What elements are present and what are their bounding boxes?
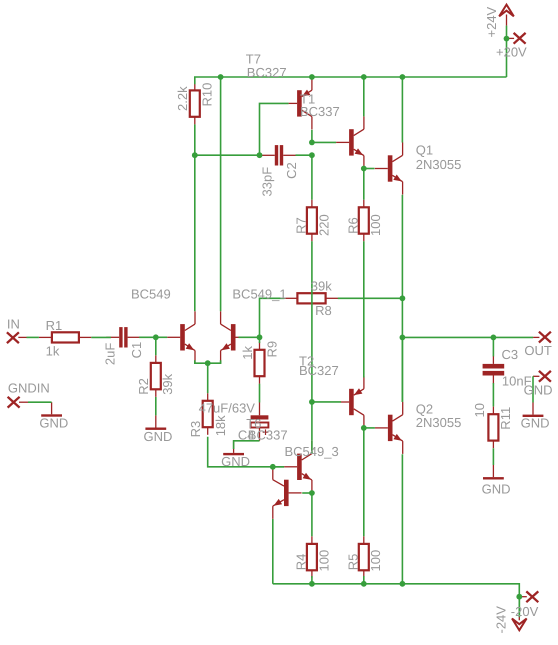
wire Q2 collector drop xyxy=(401,337,403,402)
pin GND pad xyxy=(539,371,551,382)
svg-text:C3: C3 xyxy=(502,347,519,362)
supply +24V arrow xyxy=(499,5,514,26)
wire T7 base riser xyxy=(260,103,289,155)
wire R9 bottom to C4 xyxy=(259,384,261,403)
wire +24V stem xyxy=(506,26,508,77)
label GND under R2 xyxy=(144,429,173,444)
wire C2 right to R7 column xyxy=(296,154,312,156)
label Q1 name xyxy=(416,143,433,158)
transistor T1 BC337 xyxy=(336,116,364,168)
wire BC549_3 emitter to T6 base node xyxy=(302,492,312,494)
junction top rail / T1 xyxy=(361,74,367,80)
label T2 name xyxy=(299,353,314,368)
wire output to OUT pad xyxy=(402,336,533,338)
junction R8 / output column xyxy=(400,295,406,301)
svg-text:GNDIN: GNDIN xyxy=(8,381,50,396)
junction bottom rail / R5 xyxy=(361,581,367,587)
label R5 value 100 xyxy=(368,550,383,572)
junction T1 emitter / Q1 base xyxy=(361,166,367,172)
svg-text:R3: R3 xyxy=(188,421,203,438)
svg-text:39k: 39k xyxy=(160,373,175,394)
capacitor C4 pins xyxy=(259,403,261,441)
resistor R1 xyxy=(39,332,91,342)
label T2 value BC327 xyxy=(299,363,339,378)
wire pin GND pad link xyxy=(533,375,539,377)
label T7 value BC327 xyxy=(247,65,287,80)
wire pin -20V link xyxy=(522,596,527,598)
wire R6 bottom to T2 emitter xyxy=(363,241,365,377)
label T7 name xyxy=(246,52,261,67)
wire pin +20V link xyxy=(507,37,515,39)
transistor BC549_1 right xyxy=(221,311,249,363)
label GND under pad xyxy=(521,415,550,430)
label T1 value BC337 xyxy=(300,104,340,119)
svg-text:BC549_3: BC549_3 xyxy=(285,444,339,459)
label 10 R11 value xyxy=(472,403,487,417)
wire C1 to base node xyxy=(139,336,156,338)
svg-text:100: 100 xyxy=(316,550,331,572)
wire tail node to R3 xyxy=(207,363,209,393)
svg-text:C2: C2 xyxy=(284,162,299,179)
label R7 value 220 xyxy=(316,214,331,236)
label C4 name xyxy=(238,427,255,442)
label R10 name xyxy=(200,83,215,107)
label GND under R11 xyxy=(482,482,511,497)
label R6 name xyxy=(345,217,360,234)
pin IN pad xyxy=(7,332,19,343)
wire base node to BC549 xyxy=(156,336,167,338)
label R3 name xyxy=(188,421,203,438)
wire C3 to R11 xyxy=(492,383,494,407)
wire T6 emitter drop xyxy=(272,519,274,584)
label GND under C4 xyxy=(221,454,250,469)
wire R7 bottom long drop xyxy=(311,241,313,441)
wire pin IN link xyxy=(18,336,26,338)
wire BC549_3 collector riser xyxy=(311,441,313,454)
wire C1 node to R2 xyxy=(155,337,157,355)
wire GND pad drop xyxy=(532,376,534,402)
label R8 name xyxy=(315,303,332,318)
label BC549_3 xyxy=(285,444,339,459)
junction T2 collector / Q2 base xyxy=(361,425,367,431)
svg-text:R6: R6 xyxy=(345,217,360,234)
svg-text:33pF: 33pF xyxy=(259,167,274,197)
junction top rail / Q1 xyxy=(400,74,406,80)
label R11 name xyxy=(498,407,513,430)
svg-text:BC337: BC337 xyxy=(248,427,288,442)
transistor BC549_3 xyxy=(284,441,312,493)
wire C3 tap xyxy=(492,337,494,356)
junction T1 base xyxy=(309,140,315,146)
label R4 name xyxy=(293,554,308,571)
wire Q1 collector rail drop xyxy=(401,77,403,143)
junction BC549_1 base / R9 / R8 xyxy=(257,334,263,340)
wire BC549_1 collector rail drop xyxy=(220,77,222,311)
wire node to R7 top xyxy=(311,155,313,200)
label Q2 value 2N3055 xyxy=(416,415,462,430)
ground at GND pad xyxy=(523,403,544,418)
label R1 name xyxy=(46,318,63,333)
wire BC549 collector riser xyxy=(194,155,196,311)
label Q2 name xyxy=(416,402,433,417)
svg-text:39k: 39k xyxy=(311,279,332,294)
junction bottom rail / R4 xyxy=(309,581,315,587)
junction R3 / BC549_3 base / T6 collector xyxy=(270,464,276,470)
wire R10 bottom to node xyxy=(194,124,196,155)
resistor R11 xyxy=(488,407,498,449)
svg-text:1k: 1k xyxy=(240,345,255,359)
capacitor C4 electrolytic xyxy=(251,415,269,435)
svg-text:GND: GND xyxy=(221,454,250,469)
label T1 name xyxy=(300,92,315,107)
label R5 name xyxy=(345,554,360,571)
wire R11 to GND xyxy=(492,448,494,465)
svg-text:220: 220 xyxy=(316,214,331,236)
label -24V xyxy=(494,606,509,634)
wire T2 collector to Q2 base node xyxy=(364,427,375,429)
junction bottom rail / Q2 xyxy=(400,581,406,587)
label BC549 xyxy=(131,286,171,301)
capacitor C3 xyxy=(483,356,505,384)
label +24V xyxy=(484,6,499,37)
wire T2 base link xyxy=(312,401,341,403)
junction R7 / T2 base xyxy=(309,399,315,405)
label R6 value 100 xyxy=(368,214,383,236)
wire T1 collector rail drop xyxy=(363,77,365,116)
ground below C4 xyxy=(223,441,244,456)
label R4 value 100 xyxy=(316,550,331,572)
label GND pad net xyxy=(524,383,553,398)
label GNDIN xyxy=(8,381,50,396)
label BC549_1 xyxy=(232,286,286,301)
svg-text:2uF: 2uF xyxy=(102,343,117,365)
resistor R3 xyxy=(203,393,213,435)
pin -20V pad xyxy=(526,591,538,602)
label C2 name xyxy=(284,162,299,179)
wire Q2 emitter drop xyxy=(401,454,403,584)
svg-text:BC549_1: BC549_1 xyxy=(232,286,286,301)
svg-text:2N3055: 2N3055 xyxy=(416,415,462,430)
wire T6 collector stub xyxy=(273,466,284,468)
junction C1 / R2 / base xyxy=(153,334,159,340)
label R2 value 39k xyxy=(160,373,175,394)
wire R2 to GND xyxy=(155,397,157,415)
resistor R2 xyxy=(151,355,161,397)
resistor R10 xyxy=(190,83,200,125)
svg-text:C1: C1 xyxy=(129,342,144,359)
resistor R7 xyxy=(307,200,317,242)
junction C2 left / T7 base xyxy=(257,152,263,158)
junction C2 right / R7 xyxy=(309,152,315,158)
wire R8 right to output column xyxy=(338,297,403,299)
svg-text:GND: GND xyxy=(521,415,550,430)
wire pin OUT link xyxy=(533,336,539,338)
svg-text:+20V: +20V xyxy=(496,44,527,59)
svg-text:-24V: -24V xyxy=(494,606,509,634)
wire T1 emitter node to R6 top xyxy=(363,169,365,200)
wire R4 bottom xyxy=(311,576,313,584)
transistor T7 BC327 xyxy=(289,77,312,129)
svg-text:47uF/63V: 47uF/63V xyxy=(199,400,256,415)
wire R8 left riser xyxy=(260,298,285,337)
svg-text:BC327: BC327 xyxy=(299,363,339,378)
svg-text:R8: R8 xyxy=(315,303,332,318)
resistor R5 xyxy=(359,536,369,578)
svg-text:R10: R10 xyxy=(200,83,215,107)
label R10 value 2.2k xyxy=(175,86,190,111)
svg-text:GND: GND xyxy=(524,383,553,398)
wire IN to R1 xyxy=(27,336,39,338)
label OUT xyxy=(524,343,552,358)
wire Q2 base node to R5 xyxy=(363,428,365,536)
label T6 value BC337 xyxy=(248,427,288,442)
capacitor C1 xyxy=(106,327,140,347)
label R3 value 18k xyxy=(213,415,228,436)
svg-text:R4: R4 xyxy=(293,554,308,571)
junction +24V / +20V xyxy=(504,36,510,42)
transistor Q1 2N3055 xyxy=(375,143,403,195)
pin OUT pad xyxy=(539,332,551,343)
resistor R6 xyxy=(359,200,369,242)
svg-text:18k: 18k xyxy=(213,415,228,436)
label Q1 value 2N3055 xyxy=(416,157,462,172)
wire R3 bottom to BC549_3 base xyxy=(208,437,284,467)
wire -24V stem xyxy=(518,597,520,617)
svg-text:IN: IN xyxy=(7,317,20,332)
svg-text:BC337: BC337 xyxy=(300,104,340,119)
junction BC549_3 emitter / T6 base / R4 xyxy=(309,490,315,496)
wire emitters join xyxy=(195,360,221,363)
ground GNDIN symbol xyxy=(41,402,62,416)
svg-text:100: 100 xyxy=(368,550,383,572)
label GND under GNDIN xyxy=(39,415,68,430)
wire R1 to C1 xyxy=(91,336,111,338)
label +20V xyxy=(496,44,527,59)
wire BC549_1 base to node xyxy=(239,336,260,338)
pin GNDIN pad xyxy=(8,397,20,408)
svg-text:R7: R7 xyxy=(293,217,308,234)
transistor T2 BC327 xyxy=(341,376,364,428)
supply -24V arrow xyxy=(512,617,527,630)
junction OUT / C3 xyxy=(491,335,497,341)
svg-text:OUT: OUT xyxy=(524,343,552,358)
label IN xyxy=(7,317,20,332)
label R9 name xyxy=(264,341,279,358)
transistor Q2 2N3055 xyxy=(375,402,403,454)
wire node row to C2 left xyxy=(195,154,260,156)
wire Q1 emitter to output column xyxy=(401,195,403,402)
resistor R8 xyxy=(284,293,338,303)
wire bottom rail V- xyxy=(273,584,520,617)
wire node to R4 top xyxy=(311,493,313,536)
label R8 value 39k xyxy=(311,279,332,294)
wire C4 to GND corner xyxy=(234,441,260,449)
svg-text:Q1: Q1 xyxy=(416,143,433,158)
transistor T6 BC337 xyxy=(273,467,302,519)
wire T1 base node to pin xyxy=(312,141,336,143)
capacitor C2 xyxy=(262,145,296,165)
svg-text:100: 100 xyxy=(368,214,383,236)
pin +20V pad xyxy=(514,33,526,44)
label R7 name xyxy=(293,217,308,234)
label C1 value 2uF xyxy=(102,343,117,365)
wire T7 collector to T1 base node xyxy=(311,130,313,143)
resistor R9 xyxy=(255,342,265,384)
label C2 value 33pF xyxy=(259,167,274,197)
label T6 name xyxy=(246,416,261,431)
label C1 name xyxy=(129,342,144,359)
svg-text:R1: R1 xyxy=(46,318,63,333)
svg-text:GND: GND xyxy=(39,415,68,430)
label R2 name xyxy=(136,378,151,395)
svg-text:GND: GND xyxy=(482,482,511,497)
wire pin GNDIN link xyxy=(19,401,28,403)
wire top rail V+ xyxy=(195,77,507,84)
resistor R4 xyxy=(307,536,317,578)
label R1 value 1k xyxy=(46,343,60,358)
label C4 value 47uF/63V xyxy=(199,400,256,415)
svg-text:R11: R11 xyxy=(498,407,513,430)
svg-text:GND: GND xyxy=(144,429,173,444)
ground below R11 xyxy=(483,465,504,480)
svg-text:BC549: BC549 xyxy=(131,286,171,301)
label R9 value 1k xyxy=(240,345,255,359)
svg-text:10: 10 xyxy=(472,403,487,417)
svg-text:2.2k: 2.2k xyxy=(175,86,190,111)
junction top rail / BC549_1 xyxy=(218,74,224,80)
svg-text:R9: R9 xyxy=(264,341,279,358)
svg-text:BC327: BC327 xyxy=(247,65,287,80)
wire GNDIN run xyxy=(28,401,52,403)
svg-text:R5: R5 xyxy=(345,554,360,571)
svg-text:1k: 1k xyxy=(46,343,60,358)
junction -24V / -20V xyxy=(516,594,522,600)
wire R5 bottom xyxy=(363,576,365,584)
wire T1 emitter to Q1 base xyxy=(364,168,375,170)
label C3 name xyxy=(502,347,519,362)
label C3 value 10nF xyxy=(502,373,532,388)
transistor BC549 left xyxy=(167,311,195,363)
svg-text:+24V: +24V xyxy=(484,6,499,37)
label -20V xyxy=(511,604,539,619)
svg-text:R2: R2 xyxy=(136,378,151,395)
svg-text:-20V: -20V xyxy=(511,604,539,619)
junction output / OUT xyxy=(400,335,406,341)
ground below R2 xyxy=(145,415,166,430)
junction top rail / T7 xyxy=(309,74,315,80)
svg-text:2N3055: 2N3055 xyxy=(416,157,462,172)
junction R10 C2 node xyxy=(192,152,198,158)
wire R9 top xyxy=(259,337,261,343)
junction emitter tail / R3 xyxy=(205,360,211,366)
